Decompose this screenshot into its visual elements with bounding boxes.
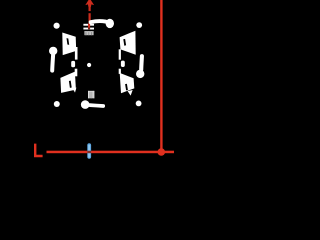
node (terminal dot, bottom-left)	[54, 101, 60, 107]
wire (right rail upper segment)	[119, 49, 121, 59]
switch S3 (bottom-left plate)	[60, 72, 76, 93]
battery B2 body (gray striped block, bottom)	[88, 91, 94, 98]
switch S4 hinge tail	[128, 90, 133, 96]
switch S1 (top-left plate)	[62, 33, 76, 56]
node (small center dot)	[87, 63, 91, 67]
battery B1 body (striped block)	[84, 31, 93, 35]
wire (white, battery to right top node)	[91, 21, 106, 22]
wire (red current path, right vertical)	[160, 0, 162, 153]
switch lever (left, capsule with knob)	[49, 47, 57, 55]
current arrow I (red, pointing up into battery)	[85, 0, 94, 7]
wire (red lead into battery, over plate 1)	[88, 24, 90, 28]
contact (left nub)	[71, 61, 75, 67]
switch S4 (bottom-right plate)	[120, 73, 135, 93]
node (white blob terminal, top)	[106, 19, 114, 28]
node (terminal dot, top-right)	[136, 22, 142, 28]
junction (blue tick x red wire overlap)	[87, 151, 91, 154]
battery B1 plate 1	[83, 24, 94, 26]
switch S1 toggle slot	[67, 38, 70, 45]
node (red junction dot, bottom-right corner)	[158, 148, 166, 156]
contact (right nub)	[121, 61, 125, 67]
wire (left rail upper segment)	[75, 47, 78, 60]
switch S2 toggle slot	[123, 39, 126, 46]
switch S3 hinge tail	[73, 88, 77, 93]
node (terminal dot, top-left)	[54, 23, 60, 29]
wire (right rail lower segment)	[119, 69, 121, 74]
wire (red current path, bottom horizontal)	[47, 151, 175, 154]
switch S2 (top-right plate)	[120, 31, 136, 55]
node (blue tick marker on bottom wire)	[87, 143, 91, 159]
switch lever (right, capsule with knob)	[136, 70, 144, 78]
wire (left rail lower segment)	[75, 69, 78, 77]
node (white blob terminal, bottom)	[81, 100, 90, 109]
switch S3 toggle slot	[69, 81, 72, 88]
node (terminal dot, bottom-right)	[136, 101, 142, 107]
wire (white, bottom node to right)	[90, 103, 103, 108]
switch S4 toggle slot	[125, 84, 128, 91]
battery B1 plate 2	[83, 28, 94, 30]
node A (red L corner marker, bottom-left)	[34, 144, 43, 158]
